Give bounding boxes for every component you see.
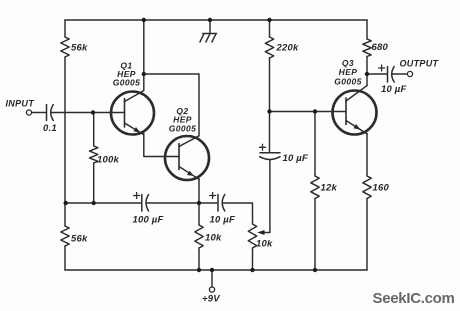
wire 680 R8 lower lead to collector node: [366, 57, 368, 75]
wire Q1 collector up to rail: [143, 20, 145, 91]
resistor R3 100k: [90, 146, 98, 163]
input terminal: [26, 110, 31, 115]
wire C1 to Q1 base node: [52, 112, 125, 114]
resistor R8 680: [363, 39, 371, 57]
wire 10k R7 upper lead: [198, 203, 200, 225]
svg-text:10 µF: 10 µF: [210, 215, 235, 226]
junction node pot bottom rail: [250, 268, 254, 272]
svg-text:10 µF: 10 µF: [283, 153, 308, 164]
svg-text:10k: 10k: [205, 233, 222, 244]
resistor R9 160: [363, 176, 371, 199]
capacitor C3 10uF plate right (curved): [222, 195, 225, 212]
wire Q2 emitter down to node: [198, 179, 200, 203]
resistor R1 56k (top left): [61, 37, 69, 57]
svg-text:680: 680: [372, 42, 389, 53]
wire Q3 collector to node: [366, 74, 368, 86]
wire 12k R5 lower lead: [314, 199, 316, 271]
svg-text:160: 160: [373, 183, 390, 194]
wire 100k R3 upper lead: [93, 113, 95, 147]
wire Q2 collector riser and cross-link to Q1 collector: [144, 74, 199, 136]
resistor R5 12k: [311, 176, 319, 199]
svg-text:100k: 100k: [97, 155, 119, 166]
svg-text:OUTPUT: OUTPUT: [400, 59, 440, 69]
wire top supply rail: [65, 19, 367, 21]
svg-text:0.1: 0.1: [43, 123, 57, 134]
wire mid node row y203: [65, 202, 141, 204]
capacitor C5 10uF plate right (curved): [392, 67, 395, 83]
resistor R7 10k: [195, 225, 203, 248]
wire Q1 emitter down and to Q2 base: [144, 134, 179, 157]
wire 10k R7 lower lead: [198, 248, 200, 270]
wire bottom ground rail: [65, 269, 367, 271]
ground symbol: [200, 20, 217, 42]
junction node 220k / C4: [267, 109, 271, 113]
svg-text:+9V: +9V: [202, 294, 220, 305]
output terminal: [407, 71, 412, 76]
svg-text:56k: 56k: [71, 234, 88, 245]
wire 160 R9 lower lead: [366, 199, 368, 271]
capacitor C3 10uF plate left: [217, 195, 219, 212]
svg-text:G0005: G0005: [113, 78, 141, 88]
svg-text:100 µF: 100 µF: [133, 215, 164, 226]
junction node Q1-Q2 collector link: [142, 72, 146, 76]
svg-text:220k: 220k: [276, 43, 299, 54]
junction node +9V tap: [210, 268, 214, 272]
wire left vertical lower (node to 56k R2): [64, 203, 66, 226]
plus sign C5: [379, 65, 385, 71]
wire Q3 emitter down to 160: [366, 134, 368, 177]
junction node top rail / ground: [208, 18, 212, 22]
+9V terminal: [209, 287, 214, 292]
resistor R2 56k (bottom left): [61, 226, 69, 246]
transistor Q1: [111, 91, 154, 135]
junction node Q3 collector / 680 / C5: [365, 72, 369, 76]
svg-text:INPUT: INPUT: [6, 99, 36, 109]
plus sign C3: [210, 193, 216, 199]
wire 12k R5 upper lead: [314, 112, 316, 177]
wire C4 down to pot wiper: [261, 160, 270, 233]
plus sign C4: [260, 144, 266, 150]
wire 220k R4 lower lead to Q3 base node: [269, 58, 271, 112]
capacitor C4 10uF plate bottom (curved): [260, 157, 280, 160]
wire 220k R4 upper lead: [269, 20, 271, 37]
capacitor C4 10uF plate top: [260, 152, 280, 154]
svg-text:SeekIC.com: SeekIC.com: [373, 290, 455, 307]
svg-text:56k: 56k: [71, 43, 88, 54]
pot wiper arrow: [257, 230, 264, 235]
junction node 12k top: [313, 109, 317, 113]
wire left vertical upper (rail to 56k R1): [64, 20, 66, 37]
junction node 100k bottom: [92, 201, 96, 205]
wire input terminal to C1: [32, 112, 46, 114]
wire 100k R3 lower lead: [93, 163, 95, 203]
transistor Q3: [333, 86, 377, 135]
junction node Q2 emitter / 10k: [197, 201, 201, 205]
wire Q3 base horizontal: [270, 111, 347, 113]
junction node 10k bottom rail: [197, 268, 201, 272]
junction node top rail / Q1 collector: [142, 18, 146, 22]
junction node top rail / 220k: [267, 18, 271, 22]
junction node divider / C2 row: [63, 201, 67, 205]
wire C3 to pot top: [223, 203, 252, 224]
svg-text:G0005: G0005: [334, 76, 362, 86]
wire 680 R8 upper lead: [366, 20, 368, 39]
potentiometer R6 10k: [248, 224, 256, 248]
wire C4 10uF upper lead: [269, 112, 271, 153]
transistor Q2: [165, 136, 209, 180]
wire pot bottom lead: [252, 248, 254, 270]
wire C5 to output terminal: [393, 73, 408, 75]
junction node Q1 base / 100k: [91, 110, 95, 114]
junction node 12k bottom rail: [313, 268, 317, 272]
svg-text:10 µF: 10 µF: [381, 84, 406, 95]
capacitor C2 100uF plate right (curved): [146, 195, 149, 212]
wire +9V stem: [211, 270, 213, 287]
wire node to C3: [199, 202, 218, 204]
capacitor C2 100uF plate left: [141, 195, 143, 212]
wire collector node to C5: [367, 73, 387, 75]
capacitor C1 0.1 plate left: [46, 105, 48, 121]
svg-text:G0005: G0005: [169, 124, 197, 134]
svg-text:10k: 10k: [256, 239, 273, 250]
capacitor C1 0.1 plate right (curved): [51, 105, 54, 121]
capacitor C5 10uF plate left: [387, 67, 389, 83]
resistor R4 220k: [265, 37, 273, 58]
plus sign C2: [134, 193, 140, 199]
wire left vertical bottom: [64, 246, 66, 270]
wire C2 to Q2 emitter node: [147, 202, 199, 204]
svg-text:12k: 12k: [321, 183, 338, 194]
wire left vertical middle (56k to divider node): [64, 57, 66, 203]
